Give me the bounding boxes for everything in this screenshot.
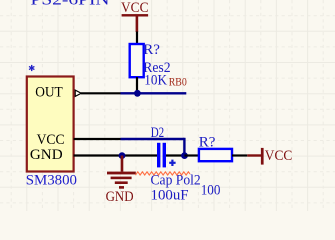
- junction node cap/D2/R2: [181, 152, 188, 159]
- svg-text:100uF: 100uF: [151, 187, 189, 203]
- label R2 value 100: [201, 182, 221, 198]
- junction node GND stub: [119, 152, 126, 159]
- svg-text:OUT: OUT: [35, 85, 63, 101]
- connector designator PS2-6PIN (cut off at top): [31, 0, 110, 9]
- label R1 designator R?: [143, 42, 160, 58]
- label R2 designator R?: [199, 135, 216, 151]
- label C1 comment Cap Pol2: [151, 172, 201, 188]
- capacitor plus sign: [169, 160, 175, 166]
- svg-text:VCC: VCC: [265, 148, 293, 164]
- wire D2 bypass horizontal (navy): [121, 138, 185, 140]
- wire VCC to R1: [136, 32, 138, 45]
- power port VCC (right) label: [265, 148, 293, 164]
- pin OUT wire (black): [81, 92, 121, 94]
- power port VCC (right) stub: [247, 154, 261, 156]
- svg-text:GND: GND: [30, 147, 63, 163]
- label R1 value 10K: [144, 73, 167, 89]
- error squiggle (red zigzag): [136, 172, 191, 175]
- pin OUT output triangle: [75, 90, 81, 96]
- junction node at R1/OUT: [134, 90, 141, 97]
- svg-text:SM3800: SM3800: [26, 172, 77, 188]
- label D2: [151, 125, 165, 141]
- label U1 SM3800: [26, 172, 77, 188]
- pin VCC wire (black): [74, 138, 121, 140]
- wire capacitor to junction (black): [166, 154, 185, 156]
- pin GND wire (black): [74, 154, 121, 156]
- wire R2 to VCC (black): [232, 154, 247, 156]
- pin name GND: [30, 147, 63, 163]
- ground stub wire (maroon): [121, 156, 124, 172]
- wire D2 bypass vertical (navy): [183, 138, 185, 156]
- power port VCC (right) bar: [261, 148, 264, 165]
- svg-text:10K: 10K: [144, 73, 167, 89]
- resistor R1 body: [130, 44, 144, 77]
- svg-text:VCC: VCC: [121, 0, 149, 16]
- svg-text:RB0: RB0: [169, 75, 187, 89]
- ground label GND: [106, 189, 134, 205]
- marker *: [29, 65, 34, 71]
- resistor R2 body: [199, 149, 232, 161]
- wire GND pin to capacitor (black): [121, 154, 158, 156]
- ground symbol bars: [107, 172, 136, 189]
- svg-text:VCC: VCC: [37, 132, 65, 148]
- power port VCC (top): [121, 0, 149, 32]
- component U1 SM3800 body: [27, 77, 74, 172]
- label C1 value 100uF: [151, 187, 189, 203]
- svg-text:R?: R?: [143, 42, 160, 58]
- wire net RB0 (navy): [121, 92, 187, 94]
- svg-text:100: 100: [201, 182, 221, 198]
- net label RB0: [169, 75, 187, 89]
- pin name VCC: [37, 132, 65, 148]
- wire junction to R2 (black): [185, 154, 200, 156]
- svg-text:PS2-6PIN: PS2-6PIN: [31, 0, 110, 9]
- svg-text:R?: R?: [199, 135, 216, 151]
- label R1 comment Res2: [143, 60, 170, 76]
- svg-text:GND: GND: [106, 189, 134, 205]
- wire R1 bottom lead: [136, 77, 138, 93]
- capacitor C1 plates: [157, 143, 166, 168]
- pin name OUT: [35, 85, 63, 101]
